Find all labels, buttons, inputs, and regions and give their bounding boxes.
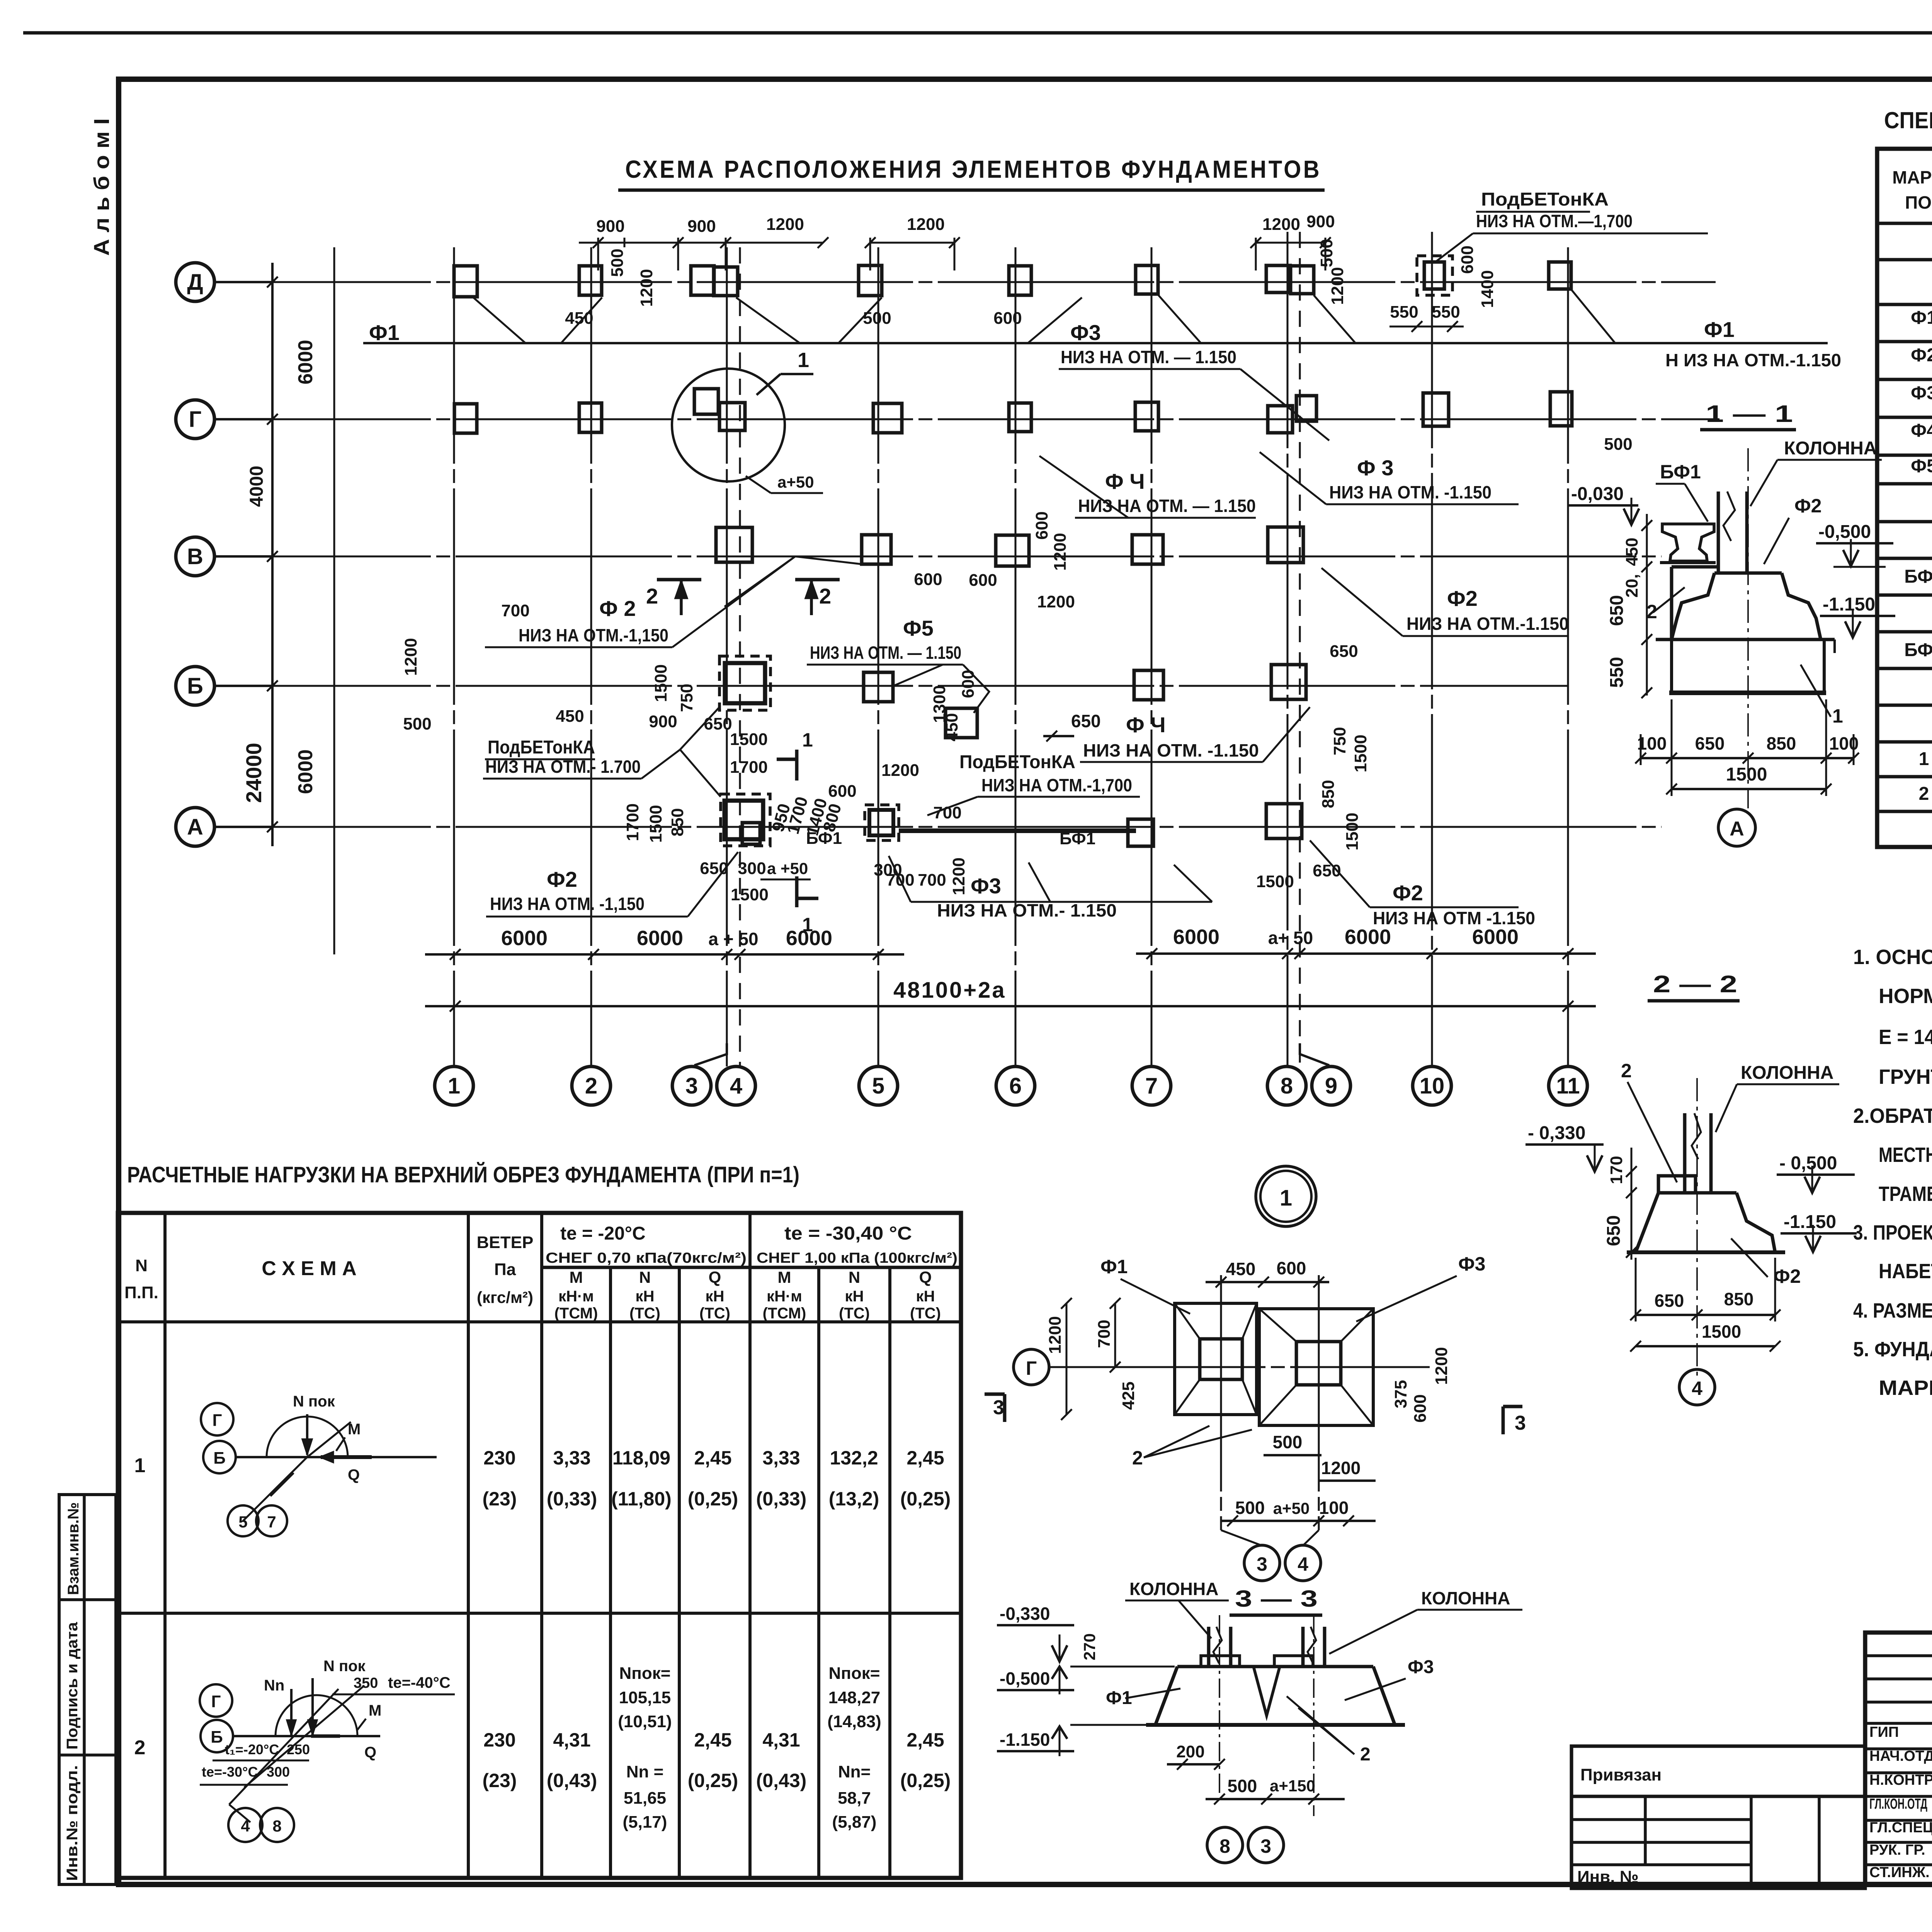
svg-text:6000: 6000: [1173, 925, 1219, 949]
svg-text:58,7: 58,7: [838, 1789, 871, 1808]
svg-text:7: 7: [1145, 1073, 1158, 1099]
section mark 2 left: [646, 580, 701, 615]
svg-text:650: 650: [1313, 861, 1341, 880]
load table row 1 values: [483, 1447, 951, 1510]
svg-text:450: 450: [942, 713, 961, 741]
svg-text:3. ПРОЕКТНАЯ МАРКА БЕТОНА: 3. ПРОЕКТНАЯ МАРКА БЕТОНА ПО МОРОЗОСТОЙК…: [1853, 1221, 1932, 1244]
svg-text:ГИП: ГИП: [1869, 1724, 1899, 1740]
svg-text:В: В: [187, 544, 203, 569]
svg-text:4: 4: [1692, 1378, 1702, 1399]
svg-text:4. РАЗМЕР „ а“ ПРИНИМАТЬ СОГ: 4. РАЗМЕР „ а“ ПРИНИМАТЬ СОГЛАСНО ТАБЛИЦ…: [1853, 1299, 1932, 1322]
svg-text:3: 3: [1260, 1835, 1271, 1857]
spec table rows: [1904, 225, 1932, 804]
svg-text:850: 850: [1767, 733, 1796, 753]
offset axis 9 dashed: [1299, 232, 1301, 1066]
svg-text:БФ1: БФ1: [1904, 640, 1932, 660]
svg-text:850: 850: [1319, 780, 1338, 808]
foundation squares row B: [719, 656, 1306, 738]
staff rows: [1869, 1722, 1932, 1881]
svg-text:2,45: 2,45: [694, 1729, 731, 1751]
svg-text:Ф1: Ф1: [1704, 317, 1735, 342]
svg-text:1200: 1200: [1046, 1316, 1065, 1354]
svg-text:750: 750: [1330, 727, 1349, 755]
svg-text:РУК. ГР.: РУК. ГР.: [1869, 1842, 1925, 1858]
svg-text:5: 5: [872, 1073, 884, 1099]
svg-text:Ф2: Ф2: [1447, 586, 1478, 611]
privyazan box: [1571, 1746, 1865, 1888]
svg-text:1400: 1400: [1478, 270, 1497, 308]
svg-text:600: 600: [969, 571, 997, 590]
svg-text:170: 170: [1607, 1156, 1626, 1184]
leader to circle 3: [694, 1043, 727, 1065]
foundation squares row V: [716, 527, 1303, 566]
svg-text:850: 850: [668, 808, 687, 836]
svg-text:Г: Г: [213, 1411, 222, 1430]
svg-text:-0,030: -0,030: [1571, 484, 1624, 504]
svg-text:650: 650: [700, 859, 728, 878]
node detail circle 1: [1256, 1166, 1316, 1226]
svg-text:А л ь б о м І: А л ь б о м І: [89, 118, 114, 256]
svg-text:БФ1: БФ1: [1660, 461, 1701, 483]
svg-text:1200: 1200: [881, 761, 919, 780]
svg-text:1200: 1200: [1321, 1458, 1361, 1478]
svg-text:ВЕТЕР: ВЕТЕР: [477, 1233, 534, 1252]
svg-text:Ф3: Ф3: [1408, 1657, 1434, 1677]
svg-text:1200: 1200: [1051, 533, 1070, 571]
svg-text:48100+2a: 48100+2a: [893, 978, 1006, 1003]
plan title underline: [618, 189, 1325, 192]
node detail plan squares: [1175, 1303, 1373, 1425]
svg-text:N пок: N пок: [323, 1658, 366, 1675]
section 1-1 left elevation dims: [1569, 484, 1652, 698]
svg-text:МАРКИ 150 ТОЛЩИНОЙ 20 мм .: МАРКИ 150 ТОЛЩИНОЙ 20 мм .: [1879, 1376, 1932, 1400]
svg-text:700: 700: [1095, 1320, 1114, 1348]
svg-text:Г: Г: [189, 407, 202, 432]
svg-text:600: 600: [1458, 245, 1477, 274]
svg-text:М: М: [778, 1268, 791, 1286]
svg-text:НИЗ НА ОТМ. — 1.150: НИЗ НА ОТМ. — 1.150: [1061, 347, 1236, 367]
svg-text:НИЗ НА ОТМ. — 1.150: НИЗ НА ОТМ. — 1.150: [1078, 496, 1256, 516]
svg-text:6000: 6000: [294, 340, 317, 384]
svg-text:1: 1: [802, 914, 813, 935]
svg-text:230: 230: [483, 1729, 515, 1751]
svg-text:СПЕЦИФИКАЦИЯ К СХЕМЕ РАСПОЛО: СПЕЦИФИКАЦИЯ К СХЕМЕ РАСПОЛОЖЕНИЯ ЭЛЕМЕН…: [1884, 107, 1932, 133]
section 2-2 labels: [1526, 1060, 1857, 1287]
svg-text:1200: 1200: [637, 269, 656, 307]
svg-text:кН·м: кН·м: [767, 1288, 802, 1305]
svg-text:t₁=-20°С: t₁=-20°С: [225, 1742, 279, 1757]
svg-text:-0,500: -0,500: [1000, 1668, 1050, 1689]
svg-text:1200: 1200: [1432, 1347, 1451, 1385]
svg-text:N пок: N пок: [293, 1393, 335, 1410]
svg-text:Ф1: Ф1: [369, 320, 400, 345]
section 2-2 drawing: [1627, 1078, 1785, 1376]
svg-text:650: 650: [1604, 1215, 1624, 1246]
section 1-1 bottom dims: [1635, 699, 1859, 796]
svg-text:1: 1: [448, 1073, 460, 1099]
axis column lines: [453, 247, 455, 1066]
svg-text:250: 250: [287, 1742, 310, 1757]
svg-text:Взам.инв.№: Взам.инв.№: [65, 1502, 82, 1595]
svg-text:a+50: a+50: [777, 473, 814, 491]
svg-text:4,31: 4,31: [553, 1729, 590, 1751]
node detail circles 3 4: [1244, 1545, 1280, 1581]
svg-text:600: 600: [828, 782, 856, 801]
foundation squares row D: [454, 256, 1571, 297]
svg-text:СНЕГ 0,70 кПа(70кгс/м²): СНЕГ 0,70 кПа(70кгс/м²): [546, 1250, 747, 1266]
svg-text:230: 230: [483, 1447, 515, 1469]
svg-text:(5,17): (5,17): [623, 1813, 667, 1832]
svg-text:Ф3: Ф3: [1070, 320, 1101, 345]
svg-text:650: 650: [1695, 733, 1725, 753]
F1 long leader line: [363, 342, 1828, 344]
svg-text:(ТС): (ТС): [629, 1305, 660, 1322]
svg-text:te = -20°С: te = -20°С: [560, 1223, 646, 1244]
section mark 1 bottom: [797, 876, 818, 935]
svg-text:8: 8: [272, 1817, 281, 1835]
svg-text:(0,33): (0,33): [756, 1488, 807, 1510]
foundation squares row G: [454, 389, 1572, 433]
node detail axis G circle: [1014, 1349, 1049, 1385]
svg-text:500: 500: [403, 714, 431, 733]
svg-text:Nn: Nn: [264, 1677, 284, 1694]
svg-text:a+50: a+50: [1273, 1499, 1310, 1517]
svg-text:Ф 3: Ф 3: [1357, 456, 1394, 480]
svg-text:Q: Q: [919, 1268, 932, 1286]
svg-text:Па: Па: [494, 1260, 516, 1279]
svg-text:2: 2: [646, 584, 658, 608]
svg-text:1700: 1700: [623, 803, 642, 841]
svg-text:3: 3: [685, 1073, 698, 1099]
svg-text:1: 1: [802, 729, 813, 751]
svg-text:НАБЕТОНОК F 50 , ДЛЯ ФУНДАМ: НАБЕТОНОК F 50 , ДЛЯ ФУНДАМЕНТНЫХ БАЛОК …: [1879, 1260, 1932, 1283]
svg-text:10: 10: [1420, 1073, 1445, 1099]
svg-text:2: 2: [1621, 1060, 1632, 1082]
svg-text:te=-30°C: te=-30°C: [202, 1764, 258, 1780]
svg-text:450: 450: [556, 707, 584, 726]
foundation beam BF1 row A thick lines: [899, 828, 1005, 833]
svg-text:- 0,500: - 0,500: [1779, 1153, 1837, 1173]
svg-text:НИЗ НА ОТМ. -1,150: НИЗ НА ОТМ. -1,150: [490, 894, 645, 914]
svg-text:3,33: 3,33: [762, 1447, 800, 1469]
svg-text:Ф5: Ф5: [903, 616, 934, 640]
svg-text:te = -30,40 °С: te = -30,40 °С: [784, 1223, 912, 1244]
node detail axis lines: [1049, 1366, 1430, 1368]
svg-text:НИЗ НА ОТМ. — 1.150: НИЗ НА ОТМ. — 1.150: [810, 643, 961, 663]
svg-text:Н ИЗ НА ОТМ.-1.150: Н ИЗ НА ОТМ.-1.150: [1665, 350, 1841, 370]
section 1-1 axis circle A: [1718, 809, 1755, 846]
svg-text:БФ1: БФ1: [1904, 566, 1932, 587]
svg-text:375: 375: [1391, 1380, 1410, 1408]
svg-text:КОЛОННА: КОЛОННА: [1784, 438, 1877, 459]
load table row 2 values: [483, 1664, 951, 1832]
svg-text:ПодБЕТонКА: ПодБЕТонКА: [959, 752, 1075, 772]
svg-text:Ф Ч: Ф Ч: [1126, 713, 1166, 737]
svg-text:кН: кН: [916, 1288, 935, 1305]
svg-text:1200: 1200: [401, 638, 420, 676]
svg-text:(0,25): (0,25): [688, 1488, 738, 1510]
svg-text:С Х Е М А: С Х Е М А: [262, 1257, 357, 1280]
svg-text:1: 1: [1280, 1185, 1292, 1211]
svg-text:Ф2: Ф2: [1794, 495, 1821, 517]
svg-text:Г: Г: [211, 1692, 221, 1711]
svg-text:М: М: [369, 1702, 381, 1719]
svg-text:600: 600: [914, 570, 942, 589]
svg-text:Привязан: Привязан: [1580, 1765, 1662, 1784]
svg-text:4: 4: [1298, 1553, 1308, 1575]
svg-text:500: 500: [863, 309, 891, 328]
svg-text:3: 3: [1257, 1553, 1267, 1575]
svg-text:-1.150: -1.150: [1784, 1212, 1836, 1232]
svg-text:ПОЗ: ПОЗ: [1905, 192, 1932, 213]
title block outer: [1865, 1633, 1932, 1884]
svg-text:11: 11: [1556, 1073, 1580, 1099]
load table row 2 schema: [200, 1658, 455, 1842]
svg-text:650: 650: [704, 714, 732, 733]
section 1-1 drawing: [1656, 448, 1835, 808]
svg-text:700: 700: [501, 601, 529, 620]
svg-text:Q: Q: [364, 1744, 376, 1761]
svg-text:450: 450: [1226, 1259, 1256, 1279]
svg-text:Ф2: Ф2: [1774, 1265, 1801, 1287]
svg-text:450: 450: [565, 309, 593, 328]
svg-text:КОЛОННА: КОЛОННА: [1421, 1588, 1510, 1608]
left vertical dim line: [271, 263, 274, 846]
svg-text:8: 8: [1219, 1835, 1230, 1857]
svg-text:650: 650: [1071, 711, 1101, 731]
svg-text:М: М: [570, 1268, 583, 1286]
svg-text:(ТС): (ТС): [699, 1305, 730, 1322]
svg-text:НИЗ НА ОТМ. -1.150: НИЗ НА ОТМ. -1.150: [1329, 482, 1492, 502]
svg-text:1500: 1500: [651, 664, 670, 702]
svg-text:1500: 1500: [730, 730, 768, 749]
svg-text:КОЛОННА: КОЛОННА: [1129, 1579, 1218, 1599]
svg-text:700: 700: [933, 803, 961, 822]
svg-text:Nпок=: Nпок=: [829, 1664, 880, 1683]
svg-text:Б: Б: [211, 1728, 223, 1747]
dim lines above row D: [579, 237, 1464, 332]
left stamp strip boxes: [59, 1495, 116, 1884]
svg-text:СТ.ИНЖ.: СТ.ИНЖ.: [1869, 1864, 1930, 1881]
svg-text:Ф Ч: Ф Ч: [1105, 469, 1145, 493]
svg-text:Ф4: Ф4: [1911, 420, 1932, 441]
spec table grid: [1877, 149, 1932, 847]
svg-text:- 0,330: - 0,330: [1528, 1123, 1585, 1143]
svg-text:Б: Б: [187, 673, 203, 699]
svg-text:НИЗ НА ОТМ.- 1.150: НИЗ НА ОТМ.- 1.150: [937, 900, 1117, 920]
svg-text:148,27: 148,27: [828, 1688, 881, 1707]
svg-text:Q: Q: [709, 1268, 721, 1286]
svg-text:-0,500: -0,500: [1818, 522, 1871, 542]
svg-text:НИЗ НА ОТМ.-1.150: НИЗ НА ОТМ.-1.150: [1406, 614, 1569, 634]
svg-text:500: 500: [1604, 435, 1632, 454]
svg-text:Е = 14,7 мПа ( 150 КГС /СМ²): Е = 14,7 мПа ( 150 КГС /СМ²) , 9 = 1,8 м…: [1879, 1026, 1932, 1049]
svg-text:1 — 1: 1 — 1: [1706, 401, 1793, 427]
svg-text:-1.150: -1.150: [1823, 594, 1875, 615]
svg-text:750: 750: [677, 684, 696, 712]
svg-text:600: 600: [1032, 511, 1051, 539]
svg-text:a +50: a +50: [767, 859, 808, 878]
svg-text:ГРУНТУ К₁=1 . ГРУНТОВЫЕ ВОД: ГРУНТУ К₁=1 . ГРУНТОВЫЕ ВОДЫ ОТСУТСТВУЮТ…: [1879, 1065, 1932, 1088]
section 3-3 drawing: [1146, 1615, 1405, 1816]
svg-text:(0,43): (0,43): [547, 1770, 597, 1791]
svg-text:500: 500: [1273, 1432, 1303, 1452]
svg-text:5. ФУНДАМЕНТНЫЕ БАЛКИ УСТАНА: 5. ФУНДАМЕНТНЫЕ БАЛКИ УСТАНАВЛИВАЮТСЯ НА…: [1853, 1337, 1932, 1361]
svg-text:МАРКА: МАРКА: [1892, 167, 1932, 187]
section 2-2 bottom dims: [1630, 1258, 1781, 1352]
bottom dim line left segment: [425, 953, 904, 956]
svg-text:4,31: 4,31: [762, 1729, 800, 1751]
svg-text:te=-40°C: te=-40°C: [388, 1674, 451, 1691]
row axis circles: [176, 263, 214, 301]
svg-text:1200: 1200: [1262, 215, 1300, 234]
svg-text:2,45: 2,45: [694, 1447, 731, 1469]
svg-text:9: 9: [1325, 1073, 1337, 1099]
section mark 1 top: [777, 729, 813, 781]
svg-text:Инв. №: Инв. №: [1577, 1867, 1639, 1886]
svg-text:N: N: [135, 1256, 148, 1275]
svg-text:2: 2: [1646, 601, 1657, 622]
svg-text:(11,80): (11,80): [611, 1488, 672, 1510]
svg-text:N: N: [849, 1268, 860, 1286]
svg-text:НОРМАТИВНЫМИ ХАРАКТЕРИСТИКАМИ: НОРМАТИВНЫМИ ХАРАКТЕРИСТИКАМИ : Фⁿ = 0,4…: [1879, 985, 1932, 1008]
load table header: [124, 1223, 957, 1322]
bottom dim texts: [501, 925, 1519, 950]
svg-text:1200: 1200: [907, 215, 945, 234]
svg-text:500: 500: [1228, 1776, 1257, 1796]
svg-text:650: 650: [1330, 642, 1358, 661]
svg-text:6000: 6000: [1472, 925, 1519, 949]
svg-text:2: 2: [1360, 1744, 1371, 1765]
svg-text:Nn=: Nn=: [838, 1762, 871, 1781]
svg-text:700: 700: [918, 871, 946, 889]
svg-text:6000: 6000: [294, 749, 317, 794]
axis row lines: [214, 281, 1716, 283]
svg-text:132,2: 132,2: [830, 1447, 878, 1469]
svg-text:425: 425: [1119, 1381, 1138, 1410]
section 1-1 labels: [1646, 438, 1895, 727]
svg-text:НИЗ НА ОТМ.-1,150: НИЗ НА ОТМ.-1,150: [519, 625, 668, 645]
node leader 1: [757, 374, 781, 395]
svg-text:8: 8: [1281, 1073, 1293, 1099]
svg-text:2: 2: [134, 1736, 146, 1759]
svg-text:600: 600: [993, 309, 1022, 328]
node circle on plan: [672, 369, 785, 481]
svg-text:900: 900: [649, 712, 677, 731]
svg-text:51,65: 51,65: [624, 1789, 666, 1808]
sheet top edge line: [23, 31, 1932, 35]
svg-text:БФ1: БФ1: [1060, 829, 1095, 848]
svg-text:1: 1: [1832, 705, 1843, 727]
svg-text:(23): (23): [483, 1488, 517, 1510]
svg-text:900: 900: [1306, 212, 1335, 231]
svg-text:Ф2: Ф2: [1911, 345, 1932, 366]
svg-text:1: 1: [798, 349, 809, 372]
svg-text:600: 600: [959, 670, 978, 698]
section 3-3 circles 8 3: [1207, 1827, 1243, 1863]
bottom dim line right segment: [1136, 952, 1596, 955]
svg-text:100: 100: [1319, 1498, 1349, 1518]
svg-text:РАСЧЕТНЫЕ НАГРУЗКИ НА ВЕРХН: РАСЧЕТНЫЕ НАГРУЗКИ НА ВЕРХНИЙ ОБРЕЗ ФУНД…: [127, 1162, 799, 1187]
svg-text:700: 700: [886, 871, 914, 889]
svg-text:(ТС): (ТС): [839, 1305, 870, 1322]
svg-text:Nпок=: Nпок=: [619, 1664, 671, 1683]
title block left rows: [1865, 1656, 1932, 1865]
plan dimension texts: [401, 212, 1633, 904]
svg-text:(0,33): (0,33): [547, 1488, 597, 1510]
svg-text:(23): (23): [483, 1770, 517, 1791]
svg-text:Ф1: Ф1: [1100, 1256, 1128, 1277]
svg-text:(ТСМ): (ТСМ): [763, 1305, 806, 1322]
svg-text:кН: кН: [636, 1288, 655, 1305]
node detail section marks 3: [985, 1394, 1526, 1434]
svg-text:(0,43): (0,43): [756, 1770, 807, 1791]
offset axis 4 dashed: [739, 247, 741, 1066]
node detail labels: [1100, 1253, 1485, 1469]
svg-text:НАЧ.ОТД.: НАЧ.ОТД.: [1869, 1748, 1932, 1764]
svg-text:Д: Д: [187, 270, 203, 295]
notes block: [1853, 946, 1932, 1400]
svg-text:2 — 2: 2 — 2: [1653, 971, 1737, 998]
svg-text:-1.150: -1.150: [1000, 1730, 1050, 1750]
svg-text:-0,330: -0,330: [1000, 1604, 1050, 1624]
svg-text:1700: 1700: [730, 758, 768, 777]
svg-text:МЕСТНЫМ ГРУНТОМ ОПТИМАЛЬНОЙ: МЕСТНЫМ ГРУНТОМ ОПТИМАЛЬНОЙ ВЛАЖНОСТИ С …: [1879, 1143, 1932, 1167]
svg-text:6000: 6000: [637, 927, 683, 950]
svg-text:650: 650: [1607, 595, 1627, 626]
svg-text:24000: 24000: [241, 743, 266, 803]
svg-text:270: 270: [1080, 1633, 1099, 1660]
svg-text:500: 500: [608, 248, 627, 277]
svg-text:СХЕМА РАСПОЛОЖЕНИЯ ЭЛЕМЕ: СХЕМА РАСПОЛОЖЕНИЯ ЭЛЕМЕНТОВ ФУНДАМЕНТОВ: [625, 155, 1321, 183]
svg-text:6000: 6000: [1345, 925, 1391, 949]
F1 leader branches: [473, 290, 1615, 343]
svg-text:А: А: [1730, 818, 1744, 840]
svg-text:(ТС): (ТС): [910, 1305, 941, 1322]
svg-text:6: 6: [1009, 1073, 1022, 1099]
svg-text:4: 4: [730, 1073, 742, 1099]
svg-text:Подпись и дата: Подпись и дата: [64, 1622, 81, 1750]
svg-text:НИЗ НА ОТМ.- 1.700: НИЗ НА ОТМ.- 1.700: [485, 757, 641, 777]
svg-text:ГЛ.СПЕЦ.: ГЛ.СПЕЦ.: [1869, 1820, 1932, 1836]
svg-text:550: 550: [1432, 303, 1460, 321]
svg-text:Ф3: Ф3: [971, 874, 1001, 898]
svg-text:СНЕГ 1,00 кПа (100кгс/м²): СНЕГ 1,00 кПа (100кгс/м²): [757, 1250, 957, 1266]
svg-text:3,33: 3,33: [553, 1447, 590, 1469]
svg-text:1500: 1500: [1343, 813, 1362, 850]
svg-text:КОЛОННА: КОЛОННА: [1741, 1063, 1833, 1083]
svg-text:Ф2: Ф2: [1393, 881, 1423, 905]
svg-text:Nn =: Nn =: [626, 1762, 664, 1781]
svg-text:2: 2: [1919, 784, 1929, 804]
svg-text:4: 4: [241, 1817, 250, 1835]
svg-text:900: 900: [596, 217, 624, 236]
svg-text:20,: 20,: [1622, 574, 1641, 597]
svg-text:Инв.№ подл.: Инв.№ подл.: [64, 1765, 81, 1881]
overall dim line 48100: [425, 1005, 1596, 1007]
svg-text:1500: 1500: [1726, 764, 1767, 785]
svg-text:600: 600: [1411, 1394, 1430, 1422]
svg-text:6000: 6000: [501, 927, 548, 950]
svg-text:П.П.: П.П.: [124, 1283, 158, 1302]
svg-text:Ф3: Ф3: [1458, 1253, 1485, 1275]
svg-text:3 — 3: 3 — 3: [1235, 1586, 1318, 1612]
svg-text:кН: кН: [845, 1288, 864, 1305]
svg-text:1200: 1200: [1037, 592, 1075, 611]
svg-text:Ф1: Ф1: [1911, 308, 1932, 328]
svg-text:N: N: [639, 1268, 651, 1286]
svg-text:НИЗ НА ОТМ.-1,700: НИЗ НА ОТМ.-1,700: [981, 775, 1132, 795]
